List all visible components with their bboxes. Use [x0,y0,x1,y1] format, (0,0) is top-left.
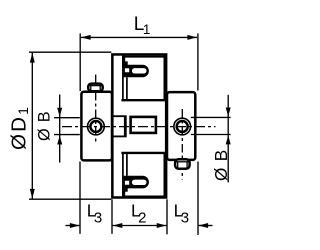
dimension L1: dimension line [81,36,197,38]
top claw detail: inner right vertical [163,56,165,101]
top claw detail: inner top line [122,56,165,58]
top claw detail: jaw blob with stadium slot [124,65,149,78]
vertical centerline left (through set screw and bore) [95,75,97,144]
bottom claw: top line [121,152,165,154]
dimension L1: extension lines [79,33,81,91]
left bore outer circle [88,118,105,135]
journal end bar [124,115,127,137]
horizontal centerline [62,126,216,128]
dimension B right: extension lines [191,116,231,118]
dimension L2: dimension line with arrowheads [113,225,167,227]
dimension L1: left arrowhead [81,35,91,40]
bottom claw: slot left wall [122,153,124,197]
bottom claw detail (mirror of top about y=126.55) [121,153,165,198]
journal channel top line [112,115,124,117]
bottom dimensions: extension lines [79,162,81,234]
bottom claw: slot right wall [126,154,128,176]
svg-text:Ø B: Ø B [35,111,53,141]
dimension B left: extension lines [54,117,80,119]
dimension L3 left: outside line and arrowhead [66,225,80,227]
dimension D1: dimension line [31,53,33,199]
bottom claw: inner bottom line [122,196,165,198]
right set screw [175,159,190,169]
dimension B left: lower line and up arrowhead [57,136,62,145]
bottom claw: left bar [122,185,125,197]
dimension B left: upper line and down arrowhead [59,95,61,163]
journal channel bottom line [112,135,124,137]
bottom claw: jaw blob with stadium slot [124,176,149,189]
left bore inner circle [90,121,101,132]
dimension D1: extension lines [29,51,111,53]
dimension D1: bottom arrowhead [30,189,35,199]
top claw detail: bottom line [121,99,165,101]
right bore inner circle [177,121,188,132]
dimension L3 right: outside line and arrowhead [199,225,213,227]
bottom claw: inner right vertical [163,153,165,198]
top claw detail: slot right wall [126,77,128,99]
dimension D1: top arrowhead [30,53,35,63]
center sleeve outline [112,54,166,197]
bottom claw: small filled square [125,188,128,192]
left set screw [88,84,103,92]
vertical centerline right (through bore and set screw) [181,109,183,180]
central cavity rectangle [131,117,156,133]
top claw detail: small filled square [125,61,128,65]
top claw detail: left bar [122,56,125,68]
svg-text:Ø B: Ø B [211,149,231,181]
dimension B right: upper line and down arrowhead [227,95,229,183]
left hub outline [81,92,112,161]
dimension L1: right arrowhead [187,35,197,40]
top claw detail: slot left wall [122,56,124,100]
dimension B right: lower line and up arrowhead [226,135,231,144]
right bore outer circle [174,118,191,135]
right hub outline [167,92,195,160]
